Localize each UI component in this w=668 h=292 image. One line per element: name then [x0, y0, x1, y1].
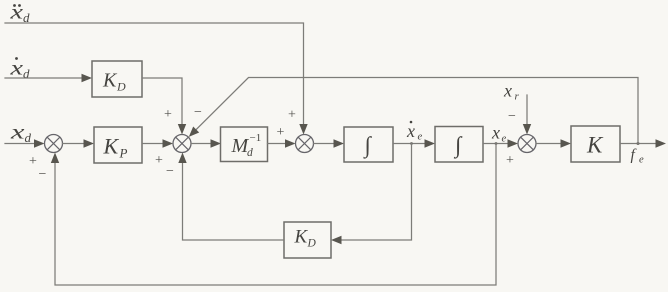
block Md inverse desired inertia [221, 127, 268, 162]
wire xe outer feedback: down, left along bottom, up into S1 (-) [51, 144, 496, 286]
wire S2 to block Md [191, 139, 221, 147]
svg-text:−: − [194, 105, 202, 120]
wire KD2 output left then up into S2 bottom (-) [178, 153, 284, 241]
wire S1 to block KP [63, 139, 95, 147]
wire K to output fe with tap node [620, 139, 666, 147]
summing junction S1 [45, 135, 63, 153]
svg-text:+: + [155, 153, 163, 168]
svg-text:x: x [9, 122, 24, 144]
block I1 integrator [344, 127, 393, 162]
wire xd into summing junction S1 [5, 139, 45, 147]
wire I1 to integrator I2 with node xe_dot [393, 139, 435, 147]
svg-text:−: − [39, 167, 47, 182]
svg-text:e: e [418, 132, 423, 143]
svg-text:d: d [25, 130, 32, 145]
svg-text:+: + [29, 154, 37, 169]
svg-text:r: r [515, 91, 520, 103]
wire fe feedback: up, left, diagonal into S2 (-) [189, 78, 638, 144]
svg-text:d: d [23, 66, 30, 81]
svg-text:x: x [406, 121, 415, 141]
label fe (contact force) [631, 147, 645, 166]
svg-text:−: − [508, 109, 516, 124]
svg-text:−: − [166, 164, 174, 179]
block KD2 derivative feedback gain [284, 222, 331, 258]
wire xdd_d feedforward: horizontal then down into summing junction S3 [5, 23, 308, 135]
block I2 integrator [435, 127, 483, 163]
summing junction S2 [173, 135, 191, 153]
svg-text:x: x [491, 123, 500, 143]
label xd_dot (desired velocity) [9, 57, 30, 81]
wire S3 to integrator I1 [314, 139, 345, 147]
svg-text:x: x [9, 58, 23, 80]
svg-text:K: K [102, 70, 118, 92]
svg-text:d: d [247, 147, 253, 159]
svg-text:+: + [164, 107, 172, 122]
svg-text:x: x [9, 2, 23, 24]
wire S4 to block K [536, 139, 571, 147]
wire KD1 output: right then down into summing junction S2 (+) [142, 78, 186, 135]
wire xr down into summing junction S4 [523, 95, 531, 135]
svg-text:D: D [116, 80, 126, 94]
svg-text:x: x [503, 81, 512, 101]
svg-text:D: D [307, 238, 317, 250]
svg-text:P: P [119, 146, 128, 161]
summing junction S4 [518, 135, 536, 153]
label xr (rest position) [503, 81, 520, 103]
svg-text:e: e [502, 134, 507, 145]
svg-text:K: K [103, 134, 120, 159]
summing junction S3 [296, 135, 314, 153]
label xe (error position) [491, 123, 507, 145]
wire Md to summing junction S3 [268, 139, 296, 147]
svg-text:+: + [277, 125, 285, 140]
svg-text:f: f [631, 147, 638, 164]
label xdd_d (desired acceleration) [9, 2, 30, 26]
block KD1 velocity feedforward gain [92, 61, 142, 97]
wire KP to summing junction S2 [142, 139, 173, 147]
svg-text:K: K [586, 133, 604, 158]
label xe_dot (error velocity) [406, 121, 423, 143]
label xd (desired position) [9, 122, 31, 146]
wire xd_dot into block KD1 [5, 74, 92, 82]
svg-text:+: + [506, 153, 514, 168]
block K environment stiffness [571, 126, 620, 162]
svg-text:+: + [288, 108, 296, 123]
svg-text:K: K [294, 227, 309, 248]
svg-text:e: e [639, 155, 644, 166]
block KP position gain [94, 127, 142, 163]
wire I2 to summing junction S4 with node xe [483, 139, 518, 147]
svg-text:−1: −1 [250, 132, 262, 144]
wire xe_dot tap down and left into block KD2 [331, 144, 412, 245]
